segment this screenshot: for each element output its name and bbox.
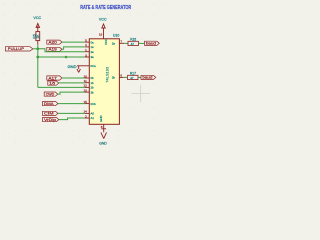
power symbol VCC (left) arrow <box>36 23 39 31</box>
pin stub y113.4 <box>85 112 89 114</box>
junction dot at x66 <box>65 56 68 59</box>
resistor R5 body <box>36 32 40 45</box>
svg-text:2b: 2b <box>91 86 95 90</box>
svg-text:3a: 3a <box>91 55 95 59</box>
svg-text:14: 14 <box>83 110 87 114</box>
svg-text:CIM: CIM <box>44 112 54 116</box>
pin 9 stub <box>85 91 89 93</box>
junction dot on rail lower <box>36 56 39 59</box>
svg-text:VCC: VCC <box>33 16 41 20</box>
svg-text:A20: A20 <box>48 41 56 45</box>
right pin 6 stub <box>119 76 123 78</box>
pin stub y103.6 <box>85 103 89 105</box>
svg-text:16: 16 <box>99 32 103 36</box>
wire R16 to label baud <box>138 42 144 44</box>
svg-text:R16: R16 <box>130 38 136 42</box>
svg-text:VrDip: VrDip <box>44 118 56 122</box>
global label VrDip <box>43 118 59 122</box>
global label baud1 <box>145 41 160 45</box>
pin 10 stub <box>85 86 89 88</box>
global label A17 <box>47 76 62 80</box>
pin 4 stub <box>85 46 89 48</box>
svg-text:15: 15 <box>83 100 87 104</box>
svg-text:13: 13 <box>83 88 87 92</box>
ground at pin (CLR) symbol <box>77 66 89 73</box>
svg-text:0Ca: 0Ca <box>91 64 97 68</box>
wire DMA to pin <box>58 103 85 105</box>
pin 1 stub <box>85 82 89 84</box>
svg-text:A19: A19 <box>48 48 56 52</box>
svg-text:12: 12 <box>83 84 87 88</box>
svg-text:2a: 2a <box>91 50 95 54</box>
cursor crosshair <box>132 85 151 102</box>
wire R17 to label baud2 <box>138 76 141 78</box>
svg-text:1b: 1b <box>91 81 95 85</box>
resistor R17 body <box>128 75 138 79</box>
ground symbol bottom <box>101 129 107 139</box>
svg-text:A0: A0 <box>91 112 95 116</box>
svg-text:GND: GND <box>68 65 78 69</box>
svg-text:DMA: DMA <box>44 102 54 106</box>
wire VrDip to pin 2 with jog <box>59 118 85 120</box>
wire pin6 to R17 <box>123 76 127 78</box>
wire pin7 to R16 <box>124 42 128 44</box>
wire A19 to pin 4 with jog <box>62 47 85 49</box>
global label DMA <box>43 102 59 106</box>
global label A20 <box>47 40 62 44</box>
wire CIM to pin <box>58 112 85 114</box>
IC U10 74LS193 body <box>89 39 119 125</box>
wire A20 to pin 5 <box>62 41 85 43</box>
svg-text:16: 16 <box>49 81 55 85</box>
pin 2 stub <box>85 117 89 119</box>
svg-text:VCC: VCC <box>104 39 108 45</box>
global label CWD <box>44 92 58 96</box>
svg-text:10: 10 <box>83 74 87 78</box>
pin 14 stub <box>85 56 89 58</box>
junction dot on rail at PULLUP <box>36 47 39 50</box>
svg-text:CWD: CWD <box>46 92 55 96</box>
wire pullup vertical rail <box>37 45 39 88</box>
svg-text:R17: R17 <box>130 71 136 75</box>
right pin 7 stub <box>119 42 124 44</box>
svg-text:U10: U10 <box>113 34 119 38</box>
svg-text:2a: 2a <box>112 42 116 46</box>
svg-text:baud: baud <box>142 76 152 80</box>
global label CIM <box>43 111 59 115</box>
svg-text:47: 47 <box>131 42 135 46</box>
svg-text:0b: 0b <box>91 76 95 80</box>
svg-text:GND: GND <box>99 115 103 121</box>
svg-text:74LS193: 74LS193 <box>106 67 110 83</box>
wire A16 to pin 1 <box>59 82 85 84</box>
pin 5 stub <box>85 41 89 43</box>
svg-text:PULLUP: PULLUP <box>8 47 25 51</box>
svg-text:A1: A1 <box>91 116 95 120</box>
wire PULLUP to rail <box>33 48 38 50</box>
svg-text:RATE & RATE GENERATOR: RATE & RATE GENERATOR <box>80 5 131 11</box>
global label A16 <box>48 81 59 85</box>
global label baud2 <box>141 75 156 79</box>
pin 8 stub bottom <box>103 124 105 132</box>
pin 11 stub <box>85 51 89 53</box>
svg-text:2b: 2b <box>112 76 116 80</box>
svg-text:3b: 3b <box>91 90 95 94</box>
wire rail dot2 to pin 14 <box>38 56 85 58</box>
svg-text:11: 11 <box>84 79 87 83</box>
svg-text:A17: A17 <box>48 76 56 80</box>
power VCC above IC pin16 <box>102 24 105 39</box>
wire rail to pin 11 with jog <box>38 49 85 52</box>
global label A19 <box>47 47 62 51</box>
svg-text:baud: baud <box>146 42 156 46</box>
svg-text:0a: 0a <box>91 40 95 44</box>
svg-text:0Cb: 0Cb <box>91 102 97 106</box>
svg-text:VCC: VCC <box>99 18 107 22</box>
wire CWD to pin 9 with jog <box>58 92 85 94</box>
global label PULLUP <box>5 47 33 51</box>
svg-text:1K: 1K <box>36 34 40 39</box>
resistor R16 body <box>128 41 138 45</box>
svg-text:47: 47 <box>130 76 134 80</box>
wire rail bend to pin 10 <box>38 86 85 88</box>
svg-text:GND: GND <box>99 141 107 145</box>
pin 15 stub <box>85 77 89 79</box>
wire A17 to pin 15 <box>62 77 85 79</box>
svg-text:1a: 1a <box>91 45 95 49</box>
